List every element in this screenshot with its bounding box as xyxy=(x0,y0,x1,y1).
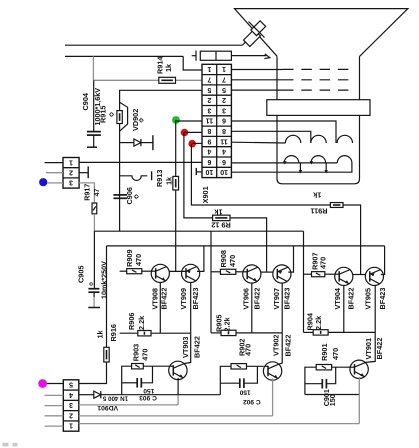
svg-text:4: 4 xyxy=(222,148,226,155)
svg-text:BF422: BF422 xyxy=(375,338,384,360)
wire grey R917 to rail1 xyxy=(93,214,95,231)
spark electrode bar right of VD902 xyxy=(152,135,154,150)
wire VT907 emitter to rail2 xyxy=(288,246,293,272)
wire red2 drive route xyxy=(191,144,330,205)
wire R908 to VT906 base xyxy=(236,271,243,273)
svg-text:6: 6 xyxy=(222,158,226,165)
wire grey stub xyxy=(45,425,64,427)
wire red1 to X901 xyxy=(185,131,203,133)
wire to C901 xyxy=(305,383,322,385)
wire VT905 emitter to rail2 xyxy=(381,246,385,275)
filament bus bottom xyxy=(231,163,352,172)
wire down to VT901 collector xyxy=(366,332,376,362)
wire down to VT902 collector xyxy=(279,333,282,364)
wire grey VT901 emitter upper xyxy=(358,377,360,395)
plus mark C905 xyxy=(89,282,94,287)
diode VD902 xyxy=(134,139,141,146)
filament bus top xyxy=(231,162,337,164)
transistor VT907 BF423 xyxy=(273,265,291,283)
stub X901 pin10 xyxy=(196,171,202,173)
svg-text:150: 150 xyxy=(328,394,337,406)
svg-text:2.2k: 2.2k xyxy=(314,315,323,330)
svg-text:C905: C905 xyxy=(77,266,86,283)
wire VT904 emitter down xyxy=(343,286,345,333)
svg-text:R906: R906 xyxy=(127,313,136,330)
svg-text:150: 150 xyxy=(239,388,250,395)
wire grey R914 left xyxy=(93,79,158,81)
svg-text:7: 7 xyxy=(222,75,226,82)
transistor VT902 BF422 xyxy=(263,362,281,380)
wire VT903 emitter xyxy=(177,378,179,395)
anode cap cross line xyxy=(249,22,265,38)
svg-text:2.2k: 2.2k xyxy=(137,315,146,330)
wire X901 pin5 to R915 xyxy=(120,90,202,110)
blue test dot xyxy=(39,178,47,186)
transistor VT906 BF422 xyxy=(243,265,261,283)
svg-text:470: 470 xyxy=(319,257,328,269)
svg-text:5: 5 xyxy=(222,86,226,93)
capacitor C904 xyxy=(87,132,101,136)
wire grey row1 xyxy=(79,423,360,425)
coating arrowhead xyxy=(264,54,269,59)
red test dot 1 xyxy=(181,129,189,137)
svg-text:R909: R909 xyxy=(125,249,134,266)
wire X901 to grid xyxy=(231,79,283,81)
wire top rail 2 xyxy=(65,55,183,57)
svg-text:BF422: BF422 xyxy=(192,336,201,358)
wire R901 to VT901 base xyxy=(332,366,351,368)
svg-text:R915: R915 xyxy=(99,106,108,123)
transistor VT904 BF422 xyxy=(335,267,353,285)
resistor R915 xyxy=(117,111,122,124)
wire R903 left node down xyxy=(122,366,132,395)
wire grey pin3 to R917 xyxy=(79,183,94,203)
capacitor C906 xyxy=(113,195,127,198)
capacitor C903 150 xyxy=(137,378,141,388)
CRT grid electrodes (dashed) xyxy=(283,68,352,70)
wire +250V rail1 xyxy=(94,230,303,232)
svg-text:5: 5 xyxy=(69,381,73,388)
wire grey VT901 emitter to row1 xyxy=(358,395,360,424)
wire R907 to VT904 base xyxy=(325,273,335,275)
CRT neck xyxy=(277,56,360,184)
resistor R917 xyxy=(92,203,97,214)
red test dot 2 xyxy=(188,140,196,148)
wire ch3 main vertical xyxy=(303,231,305,332)
select mark R915 xyxy=(109,112,114,117)
connector bottom 5-pin xyxy=(63,380,79,431)
svg-text:BF422: BF422 xyxy=(283,335,292,357)
wire R904 to collector line xyxy=(328,331,375,333)
svg-text:R911: R911 xyxy=(310,207,327,216)
svg-text:1k: 1k xyxy=(312,191,321,200)
varistor bracket of R915 xyxy=(120,102,128,131)
wire grey C905 lower xyxy=(93,297,95,307)
svg-text:1k: 1k xyxy=(164,63,173,72)
CRT filament arcs xyxy=(284,156,299,163)
svg-text:5: 5 xyxy=(207,86,211,93)
svg-text:2.2k: 2.2k xyxy=(223,316,232,331)
svg-text:10: 10 xyxy=(205,168,213,175)
wire R902 to VT902 base xyxy=(247,365,264,367)
wire red1 drive route xyxy=(184,133,213,218)
svg-text:BF423: BF423 xyxy=(378,288,387,310)
svg-text:4: 4 xyxy=(69,391,73,398)
svg-text:1: 1 xyxy=(222,65,226,72)
wire grey row2 xyxy=(79,415,273,417)
svg-text:2: 2 xyxy=(222,96,226,103)
svg-text:R913: R913 xyxy=(155,170,164,187)
chassis bar under C905 xyxy=(88,307,100,309)
spark electrode bar pin2 xyxy=(87,166,89,178)
svg-text:6: 6 xyxy=(207,158,211,165)
wire ch1 to R909 xyxy=(120,270,127,272)
CRT funnel (picture tube bowl) xyxy=(235,9,408,57)
green test dot xyxy=(172,116,180,124)
wire VT904 collector to VT905 base xyxy=(353,274,366,276)
wire X901 to grid xyxy=(231,69,283,71)
anode lead wire xyxy=(65,44,242,46)
svg-text:R908: R908 xyxy=(219,250,228,267)
svg-text:8: 8 xyxy=(207,127,211,134)
svg-text:1: 1 xyxy=(69,422,73,429)
wire R901 left node down xyxy=(305,367,316,394)
svg-text:R917: R917 xyxy=(82,184,91,201)
wire VT907 collector down xyxy=(281,283,283,333)
wire down to VT903 collector xyxy=(184,333,190,363)
wire C901 right up xyxy=(326,367,335,384)
filament junction arrows xyxy=(283,161,287,164)
wire pin1 stub xyxy=(45,162,64,164)
svg-text:2: 2 xyxy=(69,411,73,418)
svg-text:2: 2 xyxy=(207,96,211,103)
spark gap left electrode xyxy=(195,51,197,61)
resistor R916 xyxy=(104,347,109,362)
svg-text:R903: R903 xyxy=(132,344,141,361)
wire grey stub xyxy=(45,405,64,407)
wire C905 lower xyxy=(93,292,95,297)
svg-text:470: 470 xyxy=(134,254,143,266)
svg-text:2: 2 xyxy=(69,169,73,176)
svg-text:470: 470 xyxy=(228,255,237,267)
select mark C906 xyxy=(134,194,139,199)
wire R905 to collector line xyxy=(236,332,282,334)
resistor R909 470 xyxy=(127,269,142,274)
svg-text:BF422: BF422 xyxy=(160,288,169,310)
wire VD901 bias line xyxy=(101,394,221,396)
wire R911 to ch3 output xyxy=(343,205,361,275)
svg-text:1: 1 xyxy=(69,158,73,165)
select mark VD902 xyxy=(139,118,144,123)
wire ch2 main vertical xyxy=(210,231,212,333)
wire green drive down xyxy=(175,120,177,176)
wire R903 to VT903 base xyxy=(143,365,169,367)
svg-text:VT901: VT901 xyxy=(364,338,373,360)
resistor R905 2.2k xyxy=(221,330,236,335)
resistor R902 470 xyxy=(231,364,247,369)
wire ch1 main vert to R906 xyxy=(120,332,138,334)
wire grey pin2 stub xyxy=(46,172,63,174)
wire red2 to X901 xyxy=(192,142,202,144)
bar at X901 pin10 xyxy=(195,168,197,175)
svg-text:BF422: BF422 xyxy=(253,288,262,310)
transistor VT908 BF422 xyxy=(151,264,169,282)
wire VT909 emitter to rail2 xyxy=(197,246,204,272)
svg-text:VT905: VT905 xyxy=(364,288,373,310)
svg-text:470: 470 xyxy=(331,348,340,360)
svg-text:47: 47 xyxy=(92,189,101,197)
wire ch2 vert to R905 xyxy=(211,332,221,334)
wire ch3 vert to R904 xyxy=(304,331,314,333)
svg-text:8: 8 xyxy=(222,127,226,134)
svg-text:VD902: VD902 xyxy=(131,109,140,131)
CRT cathode heaters top arcs xyxy=(285,135,300,143)
wire grey VT903 emitter to row3 xyxy=(177,395,179,405)
connector X left 3-pin xyxy=(63,158,79,189)
wire grey from blue dot xyxy=(47,182,63,184)
svg-text:R916: R916 xyxy=(109,324,118,341)
wire R912 to ch2 output xyxy=(230,218,267,272)
CRT focus electrode rectangle xyxy=(267,100,370,116)
wire green dot to X901 xyxy=(176,120,202,122)
diode VD901 1N4005 xyxy=(94,391,101,398)
transistor VT903 BF422 xyxy=(169,361,187,379)
svg-text:9: 9 xyxy=(207,137,211,144)
svg-text:3: 3 xyxy=(207,106,211,113)
wire to X901 pin1 xyxy=(183,56,202,70)
capacitor C901 150 xyxy=(322,379,326,389)
wire C904 bottom lead xyxy=(93,135,95,147)
wire R916 to pin5 xyxy=(79,362,107,384)
svg-text:3: 3 xyxy=(69,179,73,186)
svg-text:11: 11 xyxy=(220,137,228,144)
wire pin4 to VD901 xyxy=(79,394,94,396)
svg-text:VT903: VT903 xyxy=(181,337,190,359)
svg-text:C906: C906 xyxy=(125,187,134,204)
svg-text:R9 12: R9 12 xyxy=(211,221,230,230)
svg-text:BF422: BF422 xyxy=(346,288,355,310)
svg-text:VT904: VT904 xyxy=(333,287,342,309)
wire grey stub xyxy=(45,394,64,396)
spark gap line with dip xyxy=(120,176,148,181)
svg-text:3: 3 xyxy=(69,401,73,408)
svg-text:10: 10 xyxy=(220,168,228,175)
resistor R904 2.2k xyxy=(313,330,328,335)
filament drop 2 xyxy=(325,163,327,172)
capacitor C905 xyxy=(88,289,99,293)
wire pin8 to cathode 2 xyxy=(231,131,310,143)
wire to CRT coating xyxy=(231,55,266,57)
svg-text:R901: R901 xyxy=(320,343,329,360)
resistor R914 xyxy=(159,77,176,83)
svg-text:BF423: BF423 xyxy=(191,288,200,310)
wire rail2 xyxy=(107,245,385,247)
svg-text:470: 470 xyxy=(140,349,149,361)
svg-text:VT909: VT909 xyxy=(179,288,188,310)
svg-text:150: 150 xyxy=(143,387,154,394)
svg-text:1k: 1k xyxy=(95,329,104,338)
svg-text:1k: 1k xyxy=(214,208,223,217)
wire ch3 bias line xyxy=(305,394,359,396)
wire R906 to collector line xyxy=(151,332,191,334)
resistor R908 470 xyxy=(220,269,235,274)
filament drop 1 xyxy=(299,163,301,172)
transistor VT901 BF422 xyxy=(350,360,368,378)
wire pin6 to cathode 3 xyxy=(231,121,336,143)
chassis bar under C904 xyxy=(87,146,97,148)
wire ch2 to R908 xyxy=(211,271,220,273)
wire X901 to grid xyxy=(231,89,283,91)
svg-text:VT906: VT906 xyxy=(242,288,251,310)
wire pin11 to cathode 1 xyxy=(231,141,285,144)
resistor R906 2.2k xyxy=(138,331,151,336)
svg-text:7: 7 xyxy=(207,75,211,82)
wire pin2 to bar xyxy=(79,172,88,174)
wire VT909 collector down xyxy=(190,283,192,334)
anode lead bend xyxy=(242,41,246,45)
wire green drive to ch1 output xyxy=(175,190,177,272)
wire VT906 emitter down xyxy=(251,283,253,333)
stray marks bottom left xyxy=(3,443,9,447)
svg-text:1: 1 xyxy=(207,65,211,72)
wire C903 right up xyxy=(141,366,152,383)
wire magenta dot to pin5 xyxy=(47,383,64,385)
svg-text:4: 4 xyxy=(207,148,211,155)
wire R902 left node down xyxy=(220,366,231,394)
wire to VD902 xyxy=(120,142,134,144)
svg-text:VT902: VT902 xyxy=(271,335,280,357)
resistor R912 xyxy=(213,215,230,221)
wire VT908 emitter down xyxy=(159,283,161,334)
svg-text:X901: X901 xyxy=(201,186,210,203)
svg-text:VT907: VT907 xyxy=(272,288,281,310)
wire +250V top rail to X901 pin6 xyxy=(79,161,202,163)
wire to C902 xyxy=(220,382,240,384)
spark electrode bar xyxy=(151,171,153,180)
wire grey R914 right to X901 pin7 xyxy=(176,79,203,81)
resistor R903 470 xyxy=(132,364,144,369)
wire rail2 left drop to R916 xyxy=(106,246,108,347)
svg-text:470: 470 xyxy=(244,344,253,356)
svg-text:C 902: C 902 xyxy=(243,398,261,405)
wire R909 to VT908 base xyxy=(142,270,151,272)
wire grey row3 xyxy=(79,404,178,406)
wire VT906 collector to VT907 base xyxy=(261,271,273,273)
svg-text:1N 400 5: 1N 400 5 xyxy=(102,395,128,402)
capacitor C902 150 xyxy=(240,378,244,388)
anode cap connector xyxy=(244,21,266,47)
wire grey stub xyxy=(45,415,64,417)
connector X901 xyxy=(202,64,231,177)
wire VD902 cathode xyxy=(141,142,153,144)
wire VT905 collector down xyxy=(374,286,376,333)
svg-text:3: 3 xyxy=(222,106,226,113)
svg-text:BF423: BF423 xyxy=(283,288,292,310)
resistor R901 470 xyxy=(316,365,331,370)
svg-text:VT908: VT908 xyxy=(151,288,160,310)
wire ch3 to R907 xyxy=(304,273,312,275)
wire R915 down main vertical ch1 xyxy=(119,124,121,232)
magenta test dot xyxy=(38,379,47,388)
resistor R907 470 xyxy=(312,272,325,277)
wire VT908 collector to VT909 base xyxy=(169,270,186,272)
wire to C903 xyxy=(122,382,138,384)
svg-text:11: 11 xyxy=(206,117,214,124)
svg-text:1k: 1k xyxy=(165,176,174,185)
transistor VT909 BF423 xyxy=(182,264,200,282)
svg-text:6: 6 xyxy=(222,117,226,124)
svg-text:C904: C904 xyxy=(81,92,90,110)
spark gap block (two-cell box) xyxy=(200,51,231,60)
resistor R913 xyxy=(173,176,179,190)
wire grey drop to R914 node xyxy=(92,56,94,80)
wire C902 right up xyxy=(244,366,258,383)
transistor VT905 BF423 xyxy=(365,267,383,285)
wire rail1 to C905 xyxy=(93,231,95,288)
resistor R911 xyxy=(330,203,343,208)
wire C904 top lead xyxy=(93,80,95,131)
wire grey VT902 emitter to row2 xyxy=(272,378,274,416)
